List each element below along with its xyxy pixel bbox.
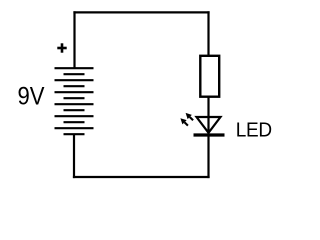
svg-text:LED: LED bbox=[236, 119, 272, 142]
battery plate long 4 bbox=[55, 103, 94, 105]
resistor R1 (box symbol) bbox=[200, 56, 219, 97]
LED D1 anode triangle bbox=[197, 117, 221, 133]
battery plate short 6 (-) bbox=[64, 133, 85, 135]
battery plate long 3 bbox=[55, 91, 94, 93]
svg-text:9V: 9V bbox=[18, 83, 45, 111]
battery plate long 5 bbox=[55, 115, 94, 117]
wire right middle (resistor to LED anode) bbox=[207, 97, 209, 135]
wire right lower (LED cathode down to bottom corner) bbox=[207, 135, 209, 178]
battery plate long 1 (+) bbox=[55, 67, 94, 69]
LED D1 cathode bar bbox=[194, 133, 225, 136]
battery B1 9V (plate stack) bbox=[55, 68, 94, 134]
wire top (battery + to resistor) bbox=[73, 11, 209, 13]
wire right upper (top corner down to resistor) bbox=[207, 11, 209, 56]
battery plate long 6 bbox=[55, 127, 94, 129]
battery plate short 4 bbox=[64, 109, 85, 111]
battery plate short 1 bbox=[64, 73, 85, 75]
LED light emission arrow 1 (lower left) bbox=[180, 118, 188, 125]
wire bottom (battery - to LED cathode) bbox=[73, 176, 210, 178]
wire left upper (top corner down to battery + plate) bbox=[73, 11, 75, 68]
wire left lower (battery - plate down to bottom corner) bbox=[73, 134, 75, 178]
battery plate short 5 bbox=[64, 121, 85, 123]
battery polarity + label bbox=[57, 43, 66, 52]
battery plate long 2 bbox=[55, 79, 94, 81]
LED light emission arrow 2 (upper right) bbox=[186, 113, 194, 120]
battery plate short 3 bbox=[64, 97, 85, 99]
battery plate short 2 bbox=[64, 85, 85, 87]
